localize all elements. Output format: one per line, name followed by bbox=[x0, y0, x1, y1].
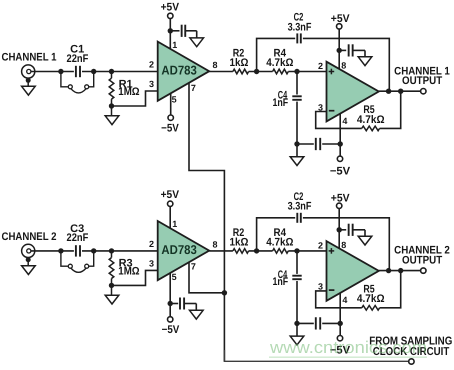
svg-text:AD783: AD783 bbox=[161, 242, 196, 257]
svg-text:CHANNEL 2: CHANNEL 2 bbox=[2, 231, 57, 243]
svg-text:+5V: +5V bbox=[161, 189, 180, 201]
svg-text:3: 3 bbox=[149, 79, 154, 89]
svg-text:8: 8 bbox=[213, 239, 218, 249]
svg-text:4: 4 bbox=[342, 116, 347, 126]
svg-text:−5V: −5V bbox=[162, 324, 180, 336]
svg-text:3.3nF: 3.3nF bbox=[288, 201, 312, 213]
svg-text:www.cntronics.com: www.cntronics.com bbox=[269, 338, 427, 357]
svg-text:2: 2 bbox=[318, 61, 323, 71]
svg-text:2: 2 bbox=[318, 241, 323, 251]
svg-text:3: 3 bbox=[149, 258, 154, 268]
svg-text:1: 1 bbox=[172, 40, 177, 50]
svg-text:1nF: 1nF bbox=[272, 276, 288, 288]
svg-text:22nF: 22nF bbox=[67, 53, 89, 65]
svg-text:1: 1 bbox=[172, 219, 177, 229]
svg-text:3.3nF: 3.3nF bbox=[288, 21, 312, 33]
svg-text:4.7kΩ: 4.7kΩ bbox=[266, 236, 293, 248]
svg-text:2: 2 bbox=[149, 239, 154, 249]
svg-text:1kΩ: 1kΩ bbox=[230, 236, 249, 248]
svg-text:OUTPUT: OUTPUT bbox=[402, 254, 442, 266]
svg-text:22nF: 22nF bbox=[67, 232, 89, 244]
svg-text:7: 7 bbox=[191, 262, 196, 272]
svg-text:1MΩ: 1MΩ bbox=[118, 266, 139, 278]
svg-text:−5V: −5V bbox=[330, 165, 351, 177]
svg-text:+5V: +5V bbox=[161, 2, 180, 14]
svg-text:4.7kΩ: 4.7kΩ bbox=[357, 114, 385, 126]
svg-text:4.7kΩ: 4.7kΩ bbox=[266, 57, 293, 69]
svg-text:4.7kΩ: 4.7kΩ bbox=[357, 293, 385, 305]
svg-text:OUTPUT: OUTPUT bbox=[402, 75, 442, 87]
svg-text:1kΩ: 1kΩ bbox=[230, 57, 249, 69]
svg-text:4: 4 bbox=[342, 295, 347, 305]
svg-text:AD783: AD783 bbox=[161, 63, 196, 78]
svg-text:8: 8 bbox=[213, 60, 218, 70]
svg-text:5: 5 bbox=[172, 95, 177, 105]
svg-text:1nF: 1nF bbox=[272, 97, 288, 109]
svg-text:7: 7 bbox=[191, 83, 196, 93]
svg-text:−5V: −5V bbox=[161, 123, 179, 135]
svg-text:8: 8 bbox=[341, 240, 346, 250]
svg-text:8: 8 bbox=[341, 60, 346, 70]
svg-text:5: 5 bbox=[172, 272, 177, 282]
svg-text:CHANNEL 1: CHANNEL 1 bbox=[2, 51, 57, 63]
svg-text:1MΩ: 1MΩ bbox=[118, 86, 139, 98]
svg-text:2: 2 bbox=[149, 60, 154, 70]
